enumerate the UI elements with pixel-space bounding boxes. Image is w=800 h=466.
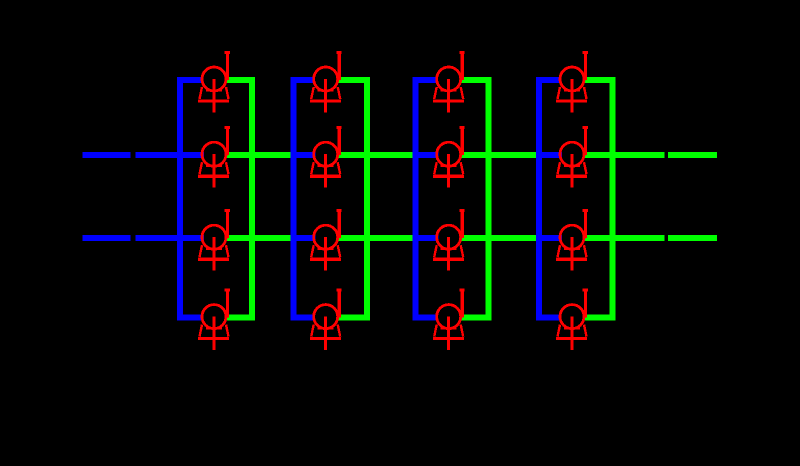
tube V3 (row 1, col 3) bbox=[433, 53, 465, 113]
wire blue row 2 input segment 2 bbox=[135, 152, 204, 158]
wire green row 2 C3-C4 bbox=[460, 152, 536, 158]
wire blue column bus C1 (left loop) bbox=[180, 80, 203, 318]
wire blue column bus C3 (left loop) bbox=[416, 80, 438, 318]
tube V7 (row 2, col 3) bbox=[433, 128, 465, 188]
wire blue row 3 stub C2 bbox=[290, 235, 315, 241]
wire green row 2 output segment 1 bbox=[583, 152, 664, 158]
wire blue column bus C4 (left loop) bbox=[539, 80, 561, 318]
tube V11 (row 3, col 3) bbox=[433, 211, 465, 271]
wire green column bus C1 (right loop) bbox=[225, 80, 252, 318]
wire green column bus C2 (right loop) bbox=[337, 80, 367, 318]
wire blue row 2 stub C3 bbox=[413, 152, 439, 158]
wire green row 3 output segment 1 bbox=[583, 235, 664, 241]
tube V5 (row 2, col 1) bbox=[198, 128, 230, 188]
wire green row 3 output segment 2 bbox=[668, 235, 717, 241]
tube V16 (row 4, col 4) bbox=[556, 290, 588, 350]
tube V6 (row 2, col 2) bbox=[310, 128, 342, 188]
wire green row 3 C3-C4 bbox=[460, 235, 536, 241]
tube V13 (row 4, col 1) bbox=[198, 290, 230, 350]
wire blue column bus C2 (left loop) bbox=[293, 80, 314, 318]
tube V12 (row 3, col 4) bbox=[556, 211, 588, 271]
tube V10 (row 3, col 2) bbox=[310, 211, 342, 271]
tube V2 (row 1, col 2) bbox=[310, 53, 342, 113]
wire green row 2 output segment 2 bbox=[668, 152, 717, 158]
wire blue row 3 stub C3 bbox=[413, 235, 439, 241]
wire blue row 3 input segment 1 bbox=[82, 235, 130, 241]
wire blue row 2 input segment 1 bbox=[82, 152, 130, 158]
tube V15 (row 4, col 3) bbox=[433, 290, 465, 350]
wire green row 2 C2-C3 bbox=[337, 152, 413, 158]
wire green row 3 C2-C3 bbox=[337, 235, 413, 241]
tube V4 (row 1, col 4) bbox=[556, 53, 588, 113]
tube V1 (row 1, col 1) bbox=[198, 53, 230, 113]
wire green column bus C3 (right loop) bbox=[460, 80, 489, 318]
wire blue row 2 stub C2 bbox=[290, 152, 315, 158]
tube V8 (row 2, col 4) bbox=[556, 128, 588, 188]
wire green column bus C4 (right loop) bbox=[583, 80, 612, 318]
wire blue row 3 input segment 2 bbox=[135, 235, 204, 241]
wire blue row 2 stub C4 bbox=[536, 152, 562, 158]
tube V9 (row 3, col 1) bbox=[198, 211, 230, 271]
wire blue row 3 stub C4 bbox=[536, 235, 562, 241]
wire green row 3 C1-C2 bbox=[225, 235, 290, 241]
wire green row 2 C1-C2 bbox=[225, 152, 290, 158]
tube V14 (row 4, col 2) bbox=[310, 290, 342, 350]
